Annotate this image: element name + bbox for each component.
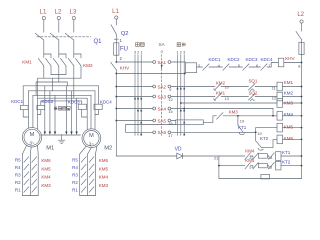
brake KDC2 bottom wire [38, 110, 41, 115]
labels M2 bank resistors R5-R1 [72, 157, 78, 192]
M1 resistor bank column 2 [29, 154, 31, 196]
svg-text:L3: L3 [70, 9, 77, 16]
svg-text:KM5: KM5 [41, 166, 51, 171]
node control L1 terminal [115, 16, 118, 19]
node L2 terminal [57, 16, 60, 19]
svg-text:SA3: SA3 [158, 94, 167, 99]
node SA1 right [168, 61, 171, 64]
svg-text:VD: VD [175, 146, 182, 152]
svg-text:KM4: KM4 [99, 175, 109, 180]
svg-text:Q2: Q2 [121, 31, 129, 37]
wire row 2 feed [116, 73, 185, 75]
motor M1 inner circle [24, 129, 40, 145]
svg-text:KM3: KM3 [284, 100, 294, 105]
wire KM3 coil to bus [283, 102, 302, 104]
svg-text:KDC2: KDC2 [42, 99, 54, 104]
wire KM1 out 3 [73, 66, 75, 98]
labels M1 bank resistors R5-R1 [15, 157, 21, 192]
limit switch SQ1 [249, 84, 256, 91]
wire SA4 row right [171, 108, 273, 110]
svg-text:M1: M1 [46, 145, 54, 151]
M2 bank bottom tie [80, 195, 96, 197]
resistor box KT1 row [258, 154, 267, 159]
fuse right element [301, 40, 303, 55]
svg-text:KM2: KM2 [284, 90, 294, 95]
svg-text:KT1: KT1 [282, 150, 291, 155]
marks SA5 position 3 [140, 121, 142, 123]
wire distribution rail 5 [41, 100, 82, 102]
motor M2 outer circle [82, 129, 101, 148]
brake KDC2 box [37, 105, 45, 109]
wire KT2 row seg2 [267, 165, 268, 167]
svg-text:2: 2 [180, 49, 182, 54]
svg-text:KT2: KT2 [282, 160, 291, 165]
position digits backward [134, 49, 185, 55]
wire SA2 row left [116, 86, 153, 88]
wire L1 tap down [115, 19, 117, 25]
svg-text:SA6: SA6 [158, 130, 167, 135]
svg-text:1: 1 [176, 49, 178, 54]
SA chart closure marks [134, 64, 185, 136]
wire KT2 contact to KM6 coil [261, 139, 277, 147]
svg-text:SA1: SA1 [158, 60, 167, 65]
wire bottom return row [219, 178, 302, 180]
M2 bank tap contacts [81, 157, 94, 193]
wire brake return 5 with arrow [71, 91, 73, 132]
wire KM1 out 2 [58, 66, 60, 82]
node SA1 left [153, 61, 156, 64]
svg-text:9: 9 [169, 87, 171, 92]
svg-text:KM6: KM6 [99, 158, 109, 163]
node control L2 terminal [300, 20, 303, 23]
wire L1 down to Q1 [43, 20, 45, 33]
svg-text:SQ1: SQ1 [249, 79, 258, 84]
svg-text:SA2: SA2 [158, 84, 167, 89]
wire grounded bus between motors [41, 134, 81, 136]
wire SA5 resistor out [203, 116, 216, 123]
wire KT1 coil to bus [281, 155, 302, 157]
svg-text:KDC3: KDC3 [246, 57, 259, 62]
wire SA6 row left [126, 131, 153, 133]
M1 bank bottom tie [22, 195, 38, 197]
contactor KM1 main contact 3 [68, 58, 74, 65]
contactor coil KM1 [277, 82, 283, 91]
wire KM1 out 1 [43, 66, 45, 78]
wire right bus [301, 55, 303, 179]
timer contact KT2 arc [258, 148, 263, 150]
wire to KM4 coil [223, 115, 277, 117]
svg-text:KDC4: KDC4 [261, 57, 274, 62]
contactor KM2 main contact 2 [61, 58, 67, 65]
diode VD [177, 153, 183, 159]
wire reversing cross link A [51, 74, 66, 76]
timer contact KT1 arc [239, 133, 244, 135]
M2 rotor lead 3 [96, 146, 97, 154]
brake KDC1 box [20, 105, 28, 109]
svg-text:KM3: KM3 [99, 183, 109, 188]
wire SA4 row left [116, 108, 153, 110]
wire M1 stator feed 1 [27, 91, 29, 129]
svg-text:3~: 3~ [89, 141, 94, 146]
wire KT2 coil to bus [281, 165, 302, 167]
resistor box on SA1 feed [186, 63, 197, 73]
interlock KM1 contact [215, 94, 222, 101]
marks SA6 position 3 [140, 133, 142, 135]
svg-text:12: 12 [168, 97, 172, 102]
SA chart column back 1 [140, 55, 142, 136]
wire brake return 1 with arrow [44, 86, 46, 132]
auxiliary contact KM4 c [269, 153, 275, 159]
contactor coil KM3 [277, 99, 283, 108]
ground symbol stem [61, 135, 63, 140]
wire tick below Q2 [114, 38, 118, 40]
wire distribution rail 4 [38, 97, 88, 99]
wire distribution rail 2 [28, 90, 95, 92]
switch right blade [296, 31, 302, 39]
svg-text:KDC3: KDC3 [68, 99, 80, 104]
svg-text:1: 1 [140, 49, 142, 54]
wire distribution rail 2 [36, 81, 67, 83]
wire KM2 out 2 [65, 66, 67, 75]
node SA4 right [168, 107, 171, 110]
svg-text:M: M [30, 132, 35, 138]
fuse FU body [114, 43, 119, 55]
wire KT feeder vertical [218, 156, 220, 179]
svg-text:KM1: KM1 [284, 80, 294, 85]
svg-text:KDC1: KDC1 [11, 99, 23, 104]
labels KDC chain contacts [209, 57, 274, 62]
wire KDC chain row [197, 66, 203, 68]
svg-text:L2: L2 [297, 12, 304, 18]
node SA5 right [168, 119, 171, 122]
svg-text:R3: R3 [72, 172, 78, 177]
ground symbol [58, 139, 65, 141]
M2 resistor bank column 3 [95, 154, 97, 196]
brake KDC4 bottom wire [95, 110, 99, 115]
svg-text:SA5: SA5 [158, 118, 167, 123]
svg-text:M: M [89, 133, 94, 139]
svg-text:R1: R1 [72, 187, 78, 192]
wire SA6 row right [171, 131, 256, 133]
svg-text:L2: L2 [55, 9, 62, 16]
svg-text:KM5: KM5 [99, 166, 109, 171]
wire reversing cross link B [38, 77, 81, 79]
svg-text:SA4: SA4 [158, 106, 167, 111]
wire SA1 row left [116, 61, 153, 63]
auxiliary contact KM4 b [253, 153, 259, 159]
labels M1 bank contactors KM6-KM3 [41, 158, 51, 188]
wire SA2 row seg2 [221, 86, 249, 88]
svg-text:KM2: KM2 [83, 63, 93, 68]
svg-text:21: 21 [214, 156, 218, 161]
header forward [177, 43, 186, 47]
contactor coil KM4 [277, 112, 283, 121]
wire SA3 row seg3 [255, 96, 277, 98]
switch Q2 blade [111, 25, 116, 35]
svg-text:KM4: KM4 [284, 112, 294, 117]
node SA5 left [153, 119, 156, 122]
node L3 terminal [72, 16, 75, 19]
svg-text:FU: FU [120, 46, 128, 52]
timer coil KT1 [276, 152, 282, 161]
wire SA2 row to KM2 contact [171, 86, 215, 88]
svg-text:KM1: KM1 [22, 60, 32, 65]
header backward [136, 43, 145, 47]
marks SA4 positions 2-3 [137, 109, 139, 111]
M1 rotor lead 1 [22, 145, 26, 154]
wire SA3 row left [116, 96, 153, 98]
auxiliary contact KM5 a [245, 163, 251, 169]
svg-text:SA: SA [159, 42, 166, 47]
svg-text:13: 13 [225, 96, 229, 101]
KDC chain wire digits [198, 63, 301, 69]
wire SA4 drop to KM4 coil row [272, 109, 274, 116]
wire KT1 row seg [250, 155, 253, 157]
wire KT2 branch down [255, 132, 257, 141]
breaker Q1 linkage dashed [37, 36, 91, 38]
wire digits row2 [225, 85, 277, 101]
svg-text:M2: M2 [104, 146, 112, 152]
wire KT1 branch down [237, 116, 239, 125]
svg-text:16: 16 [168, 121, 172, 126]
brake KDC3 box [78, 104, 86, 109]
svg-text:R1: R1 [15, 187, 21, 192]
svg-text:R5: R5 [72, 157, 78, 162]
M1 bank tap contacts [24, 157, 37, 193]
svg-text:KHV: KHV [120, 66, 130, 71]
wire M2 stator feed 1 [86, 98, 88, 130]
wire branch stub phase2 to KM2 [59, 54, 66, 58]
wire Q1 pole1 out [43, 40, 45, 58]
wire FU out to SA1 node [115, 55, 117, 62]
svg-text:R2: R2 [15, 180, 21, 185]
node SA2 right [168, 85, 171, 88]
wire control bus left [115, 70, 117, 156]
wire chain seg3 [229, 66, 243, 68]
svg-text:L1: L1 [40, 9, 47, 16]
M2 resistor bank column 2 [87, 154, 89, 196]
svg-text:6: 6 [256, 63, 258, 68]
brake KDC3 bottom wire [82, 110, 88, 118]
wire SA5 row to resistor [171, 120, 176, 122]
M1 rotor lead 2 [29, 147, 32, 154]
svg-text:2: 2 [137, 49, 139, 54]
wire distribution rail 3 [33, 94, 91, 96]
label brakes chinese [54, 107, 70, 111]
svg-text:KM3: KM3 [41, 183, 51, 188]
limit switch SQ1 foot [250, 89, 254, 91]
contactor coil KM5 [277, 123, 283, 132]
node SA3 right [168, 95, 171, 98]
wire KT1 coil row [219, 155, 245, 157]
wire M1 stator feed 3 from bracket2 [35, 82, 37, 95]
wire branch stub phase1 to KM2 [44, 54, 51, 58]
wire brake return 4 with arrow [65, 86, 67, 132]
wire Q2 out [115, 34, 117, 43]
fuse right body [299, 42, 304, 54]
brake KDC4 box [94, 104, 102, 109]
timer contact KT1 [238, 125, 243, 132]
svg-text:L1: L1 [112, 9, 119, 15]
svg-text:R3: R3 [15, 172, 21, 177]
wire cross link B drop [52, 78, 54, 91]
svg-text:19: 19 [240, 118, 244, 123]
relay coil KHV [278, 58, 284, 67]
arrowheads on return wires [44, 132, 78, 135]
relay contact KHV blade [111, 62, 117, 69]
wire L2 down to Q1 [58, 20, 60, 33]
wire KM5 coil to bus [283, 127, 302, 129]
svg-text:R2: R2 [72, 180, 78, 185]
svg-text:19: 19 [257, 131, 261, 136]
svg-text:KT1: KT1 [238, 125, 247, 130]
resistor box on SA5 row [176, 120, 204, 125]
svg-text:8: 8 [298, 64, 300, 69]
brake KDC1 bottom wire [23, 110, 28, 117]
wire SA3 row seg2 [221, 96, 249, 98]
wire VD row right [183, 155, 219, 157]
SA chart column zero dashed [161, 55, 163, 136]
labels M2 bank contactors KM6-KM3 [99, 158, 109, 188]
svg-text:17: 17 [168, 133, 172, 138]
brake KDC2 feed wire [40, 101, 42, 105]
node L1 terminal [42, 16, 45, 19]
wire KT1 contact to KM5 coil [243, 128, 277, 133]
svg-text:15: 15 [168, 109, 172, 114]
wire KT1 row seg2 [267, 155, 268, 157]
svg-text:KDC1: KDC1 [209, 57, 222, 62]
svg-text:3: 3 [183, 49, 185, 54]
svg-text:KDC4: KDC4 [100, 100, 112, 105]
contactor coil KM6 [277, 135, 283, 144]
svg-text:KM6: KM6 [41, 158, 51, 163]
svg-text:KM4: KM4 [245, 148, 255, 153]
wire chain seg2 [209, 66, 223, 68]
svg-text:5: 5 [238, 63, 240, 68]
labels SA contacts [158, 60, 167, 135]
wire KM3 coil row [181, 102, 277, 104]
M1 resistor bank column 1 [21, 154, 23, 196]
brake KDC4 feed wire [98, 86, 100, 104]
auxiliary contact KM4 a [245, 153, 251, 159]
SA chart column back 2 [137, 55, 139, 136]
motor M1 outer circle [22, 128, 41, 147]
resistor box bottom row [261, 174, 270, 179]
M1 resistor bank column 3 [37, 154, 39, 196]
wire KM4 coil to bus [283, 115, 302, 117]
SA chart column fwd 3 [183, 55, 185, 136]
brake KDC3 feed wire [81, 101, 83, 104]
svg-text:KT2: KT2 [260, 136, 269, 141]
wire SA2 row seg3 [255, 86, 277, 88]
limit switch SQ2 [249, 94, 256, 101]
svg-text:KM4: KM4 [41, 175, 51, 180]
wire M2 stator feed 3 [94, 91, 96, 130]
wire KHV coil to bus [284, 62, 302, 64]
svg-text:R4: R4 [72, 165, 78, 170]
mark SA1 zero position [161, 64, 163, 67]
wire KM2 out 3 [80, 66, 82, 78]
resistor box KT2 row [258, 163, 267, 168]
svg-text:SQ2: SQ2 [249, 90, 258, 95]
SA chart column back 3 [134, 55, 136, 136]
svg-text:11: 11 [272, 85, 276, 90]
wire rail2 right leg [66, 82, 68, 86]
M2 resistor bank column 1 [79, 154, 81, 196]
wire SA3 row to KM1 contact [171, 96, 215, 98]
wire KM6 coil to bus [283, 138, 302, 140]
wire KM2 coil to bus [283, 96, 302, 98]
wire SA6 jumper [126, 125, 176, 133]
wire M2 stator feed 2 [90, 95, 92, 129]
row number digits [168, 87, 172, 138]
wire KM1 coil to bus [283, 86, 302, 88]
wire L2 tap down [301, 23, 303, 31]
diode VD bar [182, 153, 184, 159]
wire KT2 row seg [250, 165, 253, 167]
wire distribution rail 1 [23, 85, 98, 87]
M2 rotor lead 2 [88, 148, 92, 154]
SA chart column fwd 2 [180, 55, 182, 136]
timer coil KT2 [276, 161, 282, 170]
wire brake return 3 with arrow [54, 95, 56, 131]
breaker Q1 pole 1 blade [35, 33, 44, 40]
interlock KM2 contact [215, 84, 222, 91]
interlock KDC3 contact [243, 64, 249, 70]
breaker Q1 pole 3 blade [65, 33, 74, 40]
wire Q1 pole2 out [58, 40, 60, 58]
interlock KDC2 contact [223, 64, 229, 70]
timer contact KT2 [256, 141, 262, 148]
limit switch SQ2 foot [250, 99, 254, 101]
SA chart column fwd 1 [177, 55, 179, 136]
node SA6 left [153, 131, 156, 134]
svg-text:Q1: Q1 [94, 39, 103, 45]
mark SA1 stem [160, 66, 163, 69]
auxiliary contact KM5 c [269, 163, 275, 169]
wire VD row left [116, 155, 177, 157]
M2 rotor lead 1 [80, 146, 86, 154]
wire Q1 pole3 out [73, 40, 75, 58]
svg-text:KM5: KM5 [245, 158, 255, 163]
marks SA2 forward [176, 87, 178, 89]
fuse FU element [115, 43, 117, 55]
svg-text:KHV: KHV [285, 56, 294, 61]
contactor KM2 main contact 1 [46, 58, 52, 65]
brake KDC1 feed wire [22, 86, 24, 106]
svg-text:KDC2: KDC2 [228, 57, 241, 62]
wire brake return 2 with arrow [49, 91, 51, 132]
svg-text:3~: 3~ [29, 141, 34, 146]
wire rail1 left leg to M1 [37, 78, 39, 129]
node SA2 left [153, 85, 156, 88]
interlock KDC4 contact [261, 64, 267, 70]
wire L3 down to Q1 [73, 20, 75, 33]
wire chain seg4 [249, 66, 261, 68]
svg-text:KM5: KM5 [284, 125, 294, 130]
svg-text:3: 3 [198, 63, 200, 68]
svg-text:R4: R4 [15, 165, 21, 170]
svg-text:KM3: KM3 [229, 109, 239, 114]
wire brake return 6 with arrow [76, 98, 78, 132]
svg-text:25: 25 [268, 164, 272, 169]
wire KT2 coil row [219, 165, 245, 167]
wire branch stub phase3 to KM2 [74, 54, 81, 58]
marks SA3 backward [134, 97, 136, 99]
svg-text:7: 7 [268, 63, 270, 68]
node SA3 left [153, 95, 156, 98]
motor M2 inner circle [84, 131, 99, 146]
